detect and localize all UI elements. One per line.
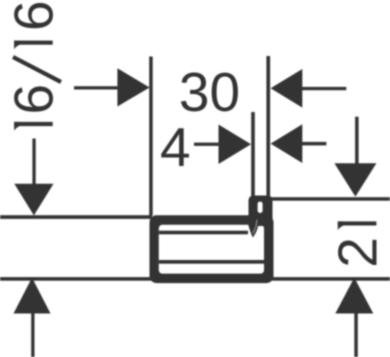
label 16/16: lower digit 1 (custom stroke) bbox=[14, 122, 53, 126]
wire: extension line left of 30 dim bbox=[149, 57, 153, 216]
dim 21 top arrowhead down bbox=[334, 163, 376, 196]
dim 16/16 bottom arrowhead up bbox=[14, 278, 51, 314]
dim 30 left arrowhead bbox=[117, 68, 149, 106]
dim 4 right arrowhead bbox=[271, 124, 303, 163]
dim 21 bottom arrowhead up bbox=[335, 278, 373, 314]
profile hook tail inner channel bbox=[253, 220, 257, 233]
wire: right top wall line bbox=[271, 197, 390, 201]
profile inner line 1 bbox=[159, 231, 248, 235]
dim 4 arrow line bbox=[194, 143, 219, 146]
dim 4 arrowhead bbox=[219, 125, 252, 165]
wire: left top wall line bbox=[0, 215, 152, 219]
wire: wall surface extension line bbox=[266, 56, 270, 198]
profile outer body bbox=[150, 215, 274, 283]
svg-text:4: 4 bbox=[160, 116, 191, 178]
profile inner cavity bbox=[159, 225, 264, 274]
profile inner line 2 bbox=[159, 260, 264, 264]
dim 30 right arrow line bbox=[302, 87, 346, 90]
label 21: digit 1 (custom stroke) bbox=[338, 221, 377, 225]
profile hook bbox=[249, 196, 273, 227]
svg-text:30: 30 bbox=[179, 61, 240, 123]
dim 16/16 line bbox=[32, 139, 35, 185]
dim 30 right arrowhead bbox=[271, 69, 303, 108]
wire: extension line for 4 dim bbox=[251, 112, 255, 198]
svg-text:6: 6 bbox=[3, 84, 65, 115]
svg-text:2: 2 bbox=[326, 237, 388, 268]
profile hook slot bbox=[258, 202, 263, 213]
dim 21 bottom arrow line bbox=[354, 313, 358, 357]
dim 21 top arrow line bbox=[355, 117, 359, 164]
svg-text:6: 6 bbox=[3, 0, 65, 31]
dim 16/16 arrowhead down bbox=[14, 184, 53, 216]
profile hook tail bbox=[247, 216, 259, 238]
wire: bottom wall line bbox=[0, 277, 390, 281]
label 16/16: upper digit 1 (custom stroke) bbox=[14, 41, 53, 45]
dim 30 left arrow line bbox=[74, 86, 120, 89]
dim 16/16 bottom line bbox=[31, 313, 34, 357]
dim 4 right arrow line bbox=[302, 142, 326, 146]
label 16/16: fraction slash bbox=[13, 57, 61, 82]
